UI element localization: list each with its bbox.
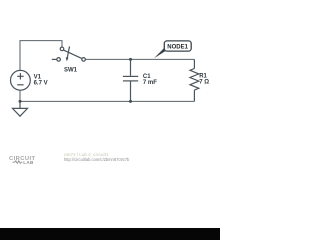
ground (13, 101, 28, 116)
node junction dot (V1 / ground / bottom rail) (19, 100, 22, 103)
svg-text:LAB: LAB (23, 160, 34, 165)
node flag NODE1 tail (154, 47, 169, 58)
svg-text:6.7 V: 6.7 V (34, 81, 48, 87)
wire: bottom rail (20, 100, 194, 102)
footer title text (64, 153, 109, 157)
switch SW1 arrowhead (66, 57, 69, 61)
node flag NODE1 box (164, 41, 191, 51)
footer url text (64, 158, 129, 162)
wire: SW1 right terminal to R1 corner (top right rail) (85, 58, 194, 60)
svg-text:NODE1: NODE1 (167, 44, 188, 50)
wire: V1 plus terminal up and right to SW1 top (20, 41, 62, 71)
capacitor C1 (123, 59, 138, 101)
schematic canvas (0, 0, 220, 165)
resistor R1 (190, 59, 199, 101)
junction dot C1 top (129, 58, 132, 61)
footer bar (0, 228, 220, 240)
switch SW1 (52, 46, 86, 61)
wire: V1 minus terminal down to bottom node (19, 90, 21, 101)
CircuitLab logo (0, 152, 44, 165)
voltage source V1 (11, 70, 31, 90)
junction dot C1 bottom (129, 100, 132, 103)
svg-text:SW1: SW1 (64, 68, 78, 74)
svg-text:7 Ω: 7 Ω (199, 80, 209, 86)
svg-text:7 mF: 7 mF (143, 80, 157, 86)
